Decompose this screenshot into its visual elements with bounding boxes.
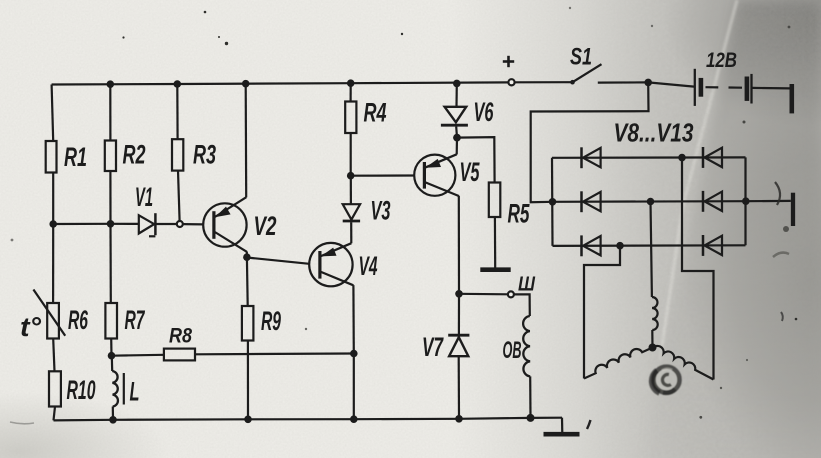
node star point — [649, 344, 657, 352]
wire R1 bottom to node row — [52, 173, 54, 225]
wire V5 emitter up to V6 node — [456, 138, 458, 155]
node dot R9 bus — [244, 416, 252, 424]
node dot V6 top — [453, 80, 461, 88]
svg-text:V5: V5 — [460, 157, 481, 187]
wire R6 to R10 — [53, 339, 54, 372]
wire R8 row left — [112, 354, 164, 357]
resistor R10 — [49, 371, 61, 406]
wire R9 bottom to ground bus — [247, 341, 249, 420]
wire R2 bottom to node row — [109, 171, 111, 224]
ground bar chassis — [544, 432, 580, 437]
diode bridge row3 left — [582, 235, 601, 256]
wire R2 column top — [109, 84, 111, 140]
svg-text:R9: R9 — [261, 306, 281, 336]
wire V3 cathode to V4 emitter — [350, 222, 352, 243]
wire R1 column top — [52, 85, 54, 142]
wire junction to L coil — [111, 356, 114, 371]
wire bridge row2 — [553, 200, 746, 203]
node dot V2 collector — [243, 253, 251, 261]
wire ground bus — [54, 418, 563, 421]
wire V2 collector down to R9 — [246, 257, 249, 306]
wire phase middle — [651, 202, 652, 298]
wire top bus from S1 to battery — [598, 82, 694, 86]
svg-text:V3: V3 — [371, 196, 391, 226]
chassis bar right of bridge — [791, 193, 795, 226]
svg-text:t°: t° — [20, 312, 41, 342]
svg-text:V8...V13: V8...V13 — [614, 118, 694, 148]
node dot R7 L R8 junction — [108, 352, 116, 360]
wire V5 collector down to Sh node — [458, 196, 460, 294]
wire Sh terminal to OV coil — [514, 294, 530, 316]
wire OV coil to ground bus — [529, 376, 531, 418]
wire V7 anode to ground bus — [458, 356, 460, 418]
wire bridge row3 — [553, 244, 746, 247]
label + — [503, 56, 514, 67]
node dot R2 col node row — [107, 220, 115, 228]
wire bridge row2 to chassis — [746, 200, 791, 203]
wire V7 top — [458, 294, 460, 334]
wire R7 to junction — [110, 339, 113, 356]
diode bridge row1 right — [703, 147, 722, 168]
wire bridge row1 — [552, 156, 746, 159]
wire top bus after + terminal — [515, 81, 573, 83]
resistor R2 — [105, 141, 116, 172]
wire junction down to V3 — [350, 176, 352, 205]
wire R4 bottom to junction — [350, 133, 352, 176]
diode V8 bridge row1 left — [582, 147, 601, 168]
svg-text:S1: S1 — [570, 44, 592, 71]
node dot bridge row1 phase — [678, 154, 686, 162]
svg-text:R1: R1 — [64, 142, 87, 172]
wire top bus — [52, 82, 509, 84]
wire R5 to ground — [494, 217, 497, 268]
wire bridge right rail — [744, 157, 746, 245]
wire phase right — [682, 158, 714, 380]
artifact apostrophe near ground — [587, 420, 591, 429]
svg-text:V1: V1 — [135, 182, 153, 212]
svg-text:V4: V4 — [359, 251, 378, 281]
resistor R1 — [46, 141, 57, 173]
svg-text:L: L — [130, 377, 140, 407]
battery dashed link — [706, 86, 719, 88]
svg-text:Ш: Ш — [518, 274, 535, 296]
wire R7 column — [109, 224, 112, 303]
inductor L — [112, 371, 118, 406]
transistor V4 — [309, 243, 353, 286]
node + terminal circle — [508, 79, 514, 85]
white crease line — [660, 0, 737, 360]
battery cell1 short plate — [699, 78, 704, 97]
svg-text:R10: R10 — [67, 375, 96, 405]
node dot bridge row2 right rail — [742, 197, 750, 205]
node dot R4 top — [347, 79, 355, 87]
resistor R8 — [164, 349, 195, 361]
node dot V2 top — [242, 80, 250, 88]
resistor R5 — [489, 183, 501, 218]
diode bridge row2 right — [703, 191, 722, 212]
wire L to ground bus — [112, 407, 114, 420]
chassis bar right of battery — [789, 84, 794, 113]
wire R8 row right — [195, 352, 354, 355]
node dot V7 bus — [455, 415, 463, 423]
node dot L bus — [109, 416, 117, 424]
darker zone right of the crease — [646, 0, 821, 458]
wire node circle to V2 base — [183, 223, 203, 225]
diode V3 — [343, 204, 360, 221]
diode V6 — [441, 107, 468, 125]
wire R10 to ground bus — [54, 407, 56, 421]
stator winding middle coil — [652, 297, 658, 330]
artifact blob below chassis bar — [783, 226, 789, 232]
thermistor R6 diagonal — [33, 290, 65, 336]
wire junction to V5 base — [351, 174, 415, 176]
battery GB 12V cell1 long plate — [694, 69, 696, 106]
wire V6 cathode to node — [455, 127, 458, 138]
artifact smudge arc — [773, 253, 789, 257]
resistor R3 — [172, 139, 183, 170]
node dot R8 V4 junction — [350, 350, 358, 358]
svg-text:12В: 12В — [706, 49, 737, 72]
wire V1 cathode to node circle — [157, 223, 177, 225]
diode bridge row2 left — [582, 191, 601, 212]
wire middle coil to star point — [651, 330, 653, 348]
wire V4 collector to ground bus — [353, 354, 355, 420]
wire V2 emitter up to bus — [245, 84, 248, 198]
node dot Sh junction — [455, 290, 463, 298]
node dot R3 top — [174, 80, 182, 88]
svg-text:V2: V2 — [254, 211, 277, 241]
wire R3 column top — [176, 84, 179, 139]
node dot R1 col node row — [49, 220, 57, 228]
svg-text:V7: V7 — [422, 332, 444, 362]
wire ground drop — [561, 418, 563, 434]
node dot V6 V5 R5 — [453, 134, 461, 142]
wire V2 collector to V4 base — [247, 258, 309, 264]
faint pencil dash bottom left — [10, 422, 34, 424]
wire V2 collector down to node — [246, 252, 248, 258]
thermistor R6 — [47, 303, 59, 339]
wire S1 to bridge plus rail — [531, 82, 649, 202]
wire battery to chassis bar — [753, 87, 791, 90]
svg-text:R6: R6 — [68, 305, 89, 335]
node dot R4 V3 V5 junction — [347, 172, 355, 180]
wire R6 column — [52, 224, 54, 303]
node dot bridge row2 phase — [647, 198, 655, 206]
svg-text:V6: V6 — [474, 97, 495, 127]
wire node row left — [53, 223, 139, 225]
svg-text:R4: R4 — [364, 98, 387, 128]
resistor R4 — [345, 102, 356, 134]
svg-text:R3: R3 — [193, 140, 216, 170]
node top bus junction to bridge — [644, 79, 652, 87]
battery cell2 short plate — [745, 77, 750, 101]
node circle Sh terminal — [508, 291, 514, 297]
wire V6 top — [455, 83, 457, 106]
node dot R2 top — [107, 80, 115, 88]
transistor V2 — [203, 197, 247, 252]
stator winding right coil — [653, 346, 714, 380]
node dot OV bus — [527, 414, 535, 422]
diode V7 — [448, 335, 469, 356]
stain blob artifact — [652, 367, 680, 393]
stator winding left coil — [584, 348, 653, 379]
wire R3 bottom to node circle — [178, 171, 180, 221]
inductor L core bar — [123, 373, 125, 405]
battery cell2 long plate — [750, 74, 752, 104]
switch S1 blade — [573, 64, 602, 82]
wire R4 top — [350, 83, 352, 101]
artifact curved mark — [775, 182, 780, 205]
resistor R7 — [105, 303, 117, 339]
svg-text:R8: R8 — [169, 325, 192, 348]
switch S1 pivot dot — [570, 80, 575, 85]
svg-text:ОВ: ОВ — [503, 337, 522, 364]
node dot bridge row2 left rail — [549, 198, 557, 206]
wire Sh row — [459, 293, 508, 296]
resistor R9 — [242, 306, 254, 341]
node dot bridge row3 phase — [616, 242, 624, 250]
transistor V5 — [414, 154, 459, 196]
wire bridge left rail — [551, 158, 554, 246]
svg-text:R7: R7 — [125, 305, 146, 335]
inductor OV field winding — [523, 316, 530, 376]
diode V13 bridge row3 right — [703, 235, 722, 256]
ground bar below R5 — [480, 267, 510, 272]
artifact comma right — [781, 312, 783, 321]
wire phase left — [584, 246, 620, 379]
zener diode V1 — [139, 213, 156, 236]
svg-text:R5: R5 — [508, 199, 531, 229]
svg-text:R2: R2 — [123, 140, 146, 170]
node dot V4 bus — [350, 415, 358, 423]
wire node to R5 — [457, 137, 495, 182]
node circle V2 base node — [177, 221, 183, 227]
wire V4 collector down — [352, 285, 355, 353]
